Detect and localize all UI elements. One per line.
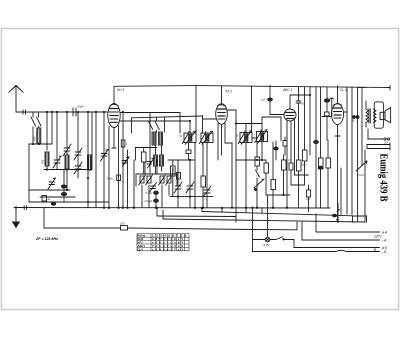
wire vertical: [351, 87, 353, 214]
transformer core: [369, 109, 370, 123]
wire vertical: [56, 111, 57, 169]
jog right: [353, 216, 367, 223]
wire to terminal A2: [302, 222, 380, 240]
svg-text:CL 4: CL 4: [340, 88, 347, 92]
wire V4 grid: [322, 116, 332, 118]
svg-text:⊕ A: ⊕ A: [382, 230, 388, 234]
wire: [155, 195, 157, 209]
wire: [256, 186, 258, 208]
capacitor box: [325, 112, 330, 140]
capacitor blob on bus: [51, 202, 55, 205]
tube V1 pin: [118, 126, 120, 209]
capacitor dark: [274, 141, 278, 160]
wire: [266, 194, 290, 195]
capacitor 1uF dark: [261, 86, 272, 102]
main ground bus: [14, 207, 330, 210]
resistor R4: [142, 148, 147, 175]
wire to terminal A1: [316, 214, 380, 232]
ground: [12, 208, 20, 229]
resistor box left: [168, 160, 178, 197]
connector break: [23, 110, 26, 114]
wire to terminal B: [253, 250, 380, 251]
wire to terminal E: [294, 240, 380, 248]
svg-text:Eumig 439 B: Eumig 439 B: [378, 154, 389, 202]
wire V4 screen: [344, 87, 348, 214]
wire V3 grid left: [270, 101, 284, 115]
svg-text:123456789: 123456789: [152, 234, 189, 238]
wire: [194, 143, 196, 209]
capacitor padder: [61, 193, 66, 196]
wire: [44, 169, 92, 170]
wire y117 link: [262, 117, 281, 141]
table text: [138, 234, 189, 252]
trimmer: [186, 182, 194, 193]
wire vertical: [127, 150, 129, 208]
capacitor C: [307, 185, 311, 212]
svg-text:– B: – B: [381, 250, 388, 254]
resistor R12: [303, 87, 308, 185]
svg-text:ZF = 128 kHz: ZF = 128 kHz: [35, 237, 58, 241]
resistor R8: [264, 160, 269, 195]
tube V1 envelope: [108, 104, 120, 128]
resistor R9: [271, 142, 276, 208]
trimmer far right: [101, 150, 109, 162]
wire: [44, 143, 52, 145]
electrolytic dark: [324, 87, 329, 112]
tube V4 internals: [334, 104, 342, 118]
wire y197: [40, 196, 75, 198]
svg-text:CL4: CL4: [138, 247, 144, 251]
tube V3 internals: [286, 113, 295, 119]
wire: [38, 143, 40, 144]
IF transformer T2 box B: [255, 130, 268, 144]
wire: [361, 88, 363, 166]
wire vertical: [133, 160, 135, 208]
svg-text:ABC1: ABC1: [138, 244, 146, 248]
antenna: [9, 86, 23, 113]
wire V4 anode to rail: [337, 86, 339, 104]
coil L6: [88, 155, 92, 170]
wire: [149, 113, 151, 175]
wire y228 heater: [44, 208, 253, 230]
wire vertical: [77, 111, 92, 178]
output transformer secondary: [374, 109, 377, 123]
wire: [291, 184, 305, 186]
svg-text:0,1M: 0,1M: [358, 174, 364, 177]
wire: [253, 239, 266, 241]
trimmer extra: [48, 178, 56, 189]
wire: [189, 120, 190, 133]
svg-text:– A: – A: [381, 238, 387, 242]
wire vertical: [103, 111, 105, 208]
wire: [253, 137, 257, 139]
svg-text:Röhre: Röhre: [138, 234, 146, 238]
resistor small: [283, 137, 287, 155]
resistor R4c: [159, 175, 166, 185]
wire: [189, 189, 191, 208]
svg-text:KH3: KH3: [138, 237, 144, 241]
trimmer C4: [74, 148, 82, 160]
resistor R13: [319, 87, 324, 208]
svg-text:KF 2: KF 2: [226, 90, 233, 94]
svg-text:ABC 1: ABC 1: [282, 88, 292, 92]
AVC line: [170, 196, 213, 197]
wire vertical: [51, 111, 52, 144]
voltage table: [137, 234, 189, 251]
resistor R4a: [139, 175, 146, 185]
wire: [189, 159, 190, 185]
capacitor grid: [296, 87, 301, 110]
svg-text:200: 200: [41, 159, 45, 164]
wire vertical speaker feed: [357, 87, 359, 221]
resistor R5: [177, 173, 181, 180]
wire coil links: [156, 145, 162, 174]
wire: [38, 126, 40, 128]
wire stub: [261, 208, 263, 213]
coil L5a: [154, 155, 158, 166]
speaker terminals: [368, 129, 390, 140]
bus connector break: [24, 206, 26, 210]
wire V2 top cap: [221, 86, 223, 104]
wire: [29, 144, 44, 202]
trimmer: [150, 183, 157, 193]
capacitor below T1: [186, 143, 191, 161]
svg-text:1μF: 1μF: [261, 99, 266, 102]
svg-text:KH 3: KH 3: [117, 88, 124, 92]
wire V1 grid2: [120, 120, 190, 122]
dial lamp: [265, 237, 270, 242]
switch: [256, 166, 260, 186]
switch S4: [155, 117, 160, 132]
switch S2: [37, 112, 42, 126]
wire vertical: [315, 87, 317, 140]
tube V1 pin: [108, 127, 110, 209]
wire: [245, 143, 247, 209]
wire: [235, 110, 237, 217]
capacitor padder: [61, 185, 66, 188]
heater wire extension: [253, 222, 298, 230]
wire y147: [136, 148, 158, 161]
wire vertical x245: [251, 86, 253, 133]
trimmer dark: [122, 157, 129, 166]
svg-text:x240x07x2: x240x07x2: [152, 247, 185, 251]
wire: [142, 185, 169, 208]
trimmer: [174, 182, 182, 193]
wire lamp feed: [267, 196, 269, 237]
coil L3: [65, 155, 69, 169]
wire vertical x196: [195, 118, 197, 133]
wire: [63, 170, 65, 203]
svg-text:500: 500: [33, 136, 37, 141]
resistor 250: [121, 226, 128, 231]
coil L2: [45, 152, 49, 166]
wire: [29, 201, 109, 203]
electrolytic 5uF: [154, 191, 159, 194]
pickup terminals: [367, 143, 390, 150]
IF transformer T2 box A: [236, 131, 253, 145]
wire speaker top: [358, 86, 366, 88]
resistor R4b: [146, 175, 153, 185]
wire V2 grid: [203, 115, 216, 133]
terminal labels: [373, 230, 388, 254]
resistor R4d: [166, 175, 173, 185]
node: [38, 143, 39, 144]
resistor R14: [326, 140, 331, 208]
svg-text:04x85x0x8: 04x85x0x8: [152, 244, 185, 248]
tube V2 envelope: [216, 104, 228, 125]
wire: [177, 189, 179, 208]
electrolytic 50uF: [314, 141, 319, 209]
wire V2 anode: [227, 109, 236, 111]
wire vertical x310: [309, 87, 310, 156]
coil L5b: [160, 155, 164, 166]
volume potentiometer: [356, 161, 367, 177]
wire vertical: [95, 111, 96, 207]
resistor R11: [297, 110, 302, 208]
tube V3 pins: [286, 118, 294, 208]
svg-text:50pF: 50pF: [78, 105, 85, 109]
wire: [29, 189, 70, 190]
tube V2 internals: [218, 105, 226, 119]
potentiometer arrow: [254, 179, 264, 191]
tube V2 pins: [218, 124, 233, 209]
wire y123 link: [235, 123, 262, 133]
wire: [178, 160, 194, 185]
wire vertical: [46, 111, 47, 150]
capacitor blob mid: [319, 166, 323, 169]
wire: [261, 142, 263, 161]
wire V3 top: [290, 95, 310, 109]
wire y222: [163, 150, 365, 222]
wire stub: [245, 208, 247, 212]
wire y214: [201, 168, 352, 216]
IF transformer T1 box B: [199, 131, 213, 144]
wire V1 anode to rail: [113, 86, 115, 103]
rail end tick: [389, 86, 391, 91]
resistor small: [353, 116, 359, 119]
IF transformer T1 box A: [180, 131, 197, 144]
wire lamp drop: [252, 207, 254, 251]
B+ rail: [196, 86, 390, 88]
speaker cone: [380, 108, 391, 123]
wire antenna input: [16, 111, 108, 113]
trimmer C5: [74, 162, 82, 174]
oscillator loop top: [115, 86, 197, 118]
resistor R7: [255, 142, 260, 167]
svg-text:5000: 5000: [301, 164, 307, 167]
trimmer arrows: [147, 158, 154, 168]
coil L4b: [159, 132, 163, 145]
svg-text:20: 20: [351, 119, 355, 123]
node: [32, 143, 33, 144]
wire vertical: [66, 111, 92, 190]
wire vertical: [122, 111, 124, 208]
trimmer C3: [63, 144, 71, 156]
capacitor 50pF: [73, 108, 76, 116]
wire vertical: [87, 111, 88, 207]
switch lamp: [270, 237, 294, 240]
wire vertical x338: [337, 203, 339, 223]
coil L1: [37, 128, 41, 143]
trimmer: [203, 143, 211, 208]
electrolytic 001uF: [154, 199, 159, 202]
coil L4a: [152, 132, 156, 145]
wire stub: [221, 207, 222, 212]
capacitor 4999: [289, 160, 293, 185]
resistor R1: [42, 196, 51, 202]
svg-text:KF2: KF2: [138, 241, 144, 245]
speaker frame: [374, 102, 383, 128]
output transformer primary: [366, 104, 369, 127]
resistor R6: [201, 143, 206, 209]
switch S1: [31, 112, 36, 144]
capacitor dark right: [333, 210, 341, 222]
wire y216: [156, 207, 236, 222]
svg-text:5000: 5000: [107, 178, 113, 181]
trimmer C2: [53, 156, 61, 168]
tube V1 pin: [112, 128, 116, 149]
wire: [46, 166, 48, 170]
resistor R10: [282, 155, 287, 195]
resistor 5000: [117, 175, 121, 181]
wire: [236, 159, 266, 160]
svg-text:x08x40x84: x08x40x84: [152, 241, 185, 245]
tube V3 envelope: [284, 109, 296, 121]
tube V4 pin: [335, 125, 340, 223]
tube V1 internals: [110, 104, 119, 122]
svg-text:0859049x5: 0859049x5: [152, 237, 185, 241]
node: [15, 207, 16, 208]
cluster top wire: [136, 160, 177, 186]
wire y112 extension: [120, 113, 180, 134]
wire transformer top: [365, 101, 367, 104]
svg-text:5Ω: 5Ω: [384, 141, 387, 145]
tube V4 envelope: [332, 104, 344, 125]
switch S3: [148, 117, 153, 132]
oscillator link line: [132, 116, 203, 133]
resistor small x123: [121, 140, 128, 147]
svg-text:250: 250: [119, 222, 125, 226]
wire hook: [330, 98, 334, 117]
wire: [295, 174, 309, 176]
